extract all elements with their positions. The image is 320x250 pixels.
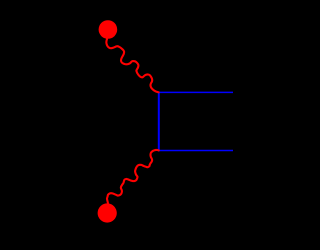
electron line top (horizontal blue) xyxy=(158,91,233,93)
electron propagator (vertical blue) xyxy=(158,92,160,152)
vertex dot bottom xyxy=(98,203,117,222)
photon wavy line top xyxy=(106,33,159,92)
photon wavy line bottom xyxy=(107,150,159,208)
electron line bottom (horizontal blue) xyxy=(158,149,233,151)
vertex dot top xyxy=(99,20,118,39)
